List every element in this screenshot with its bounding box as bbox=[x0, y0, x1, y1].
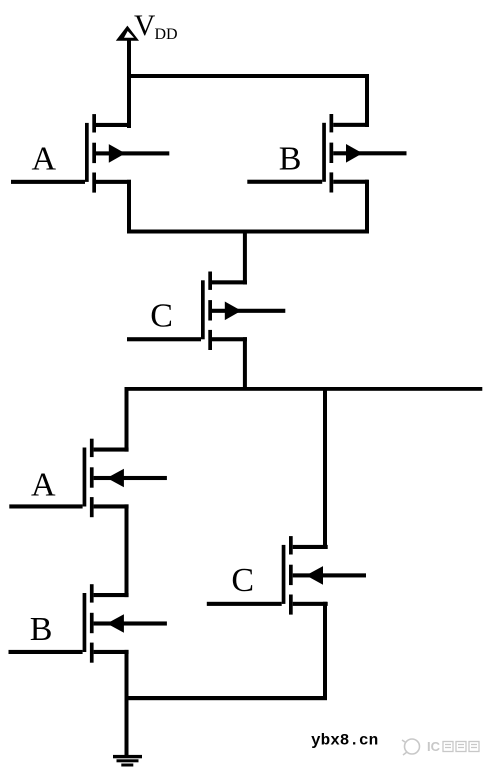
svg-text:B: B bbox=[279, 141, 302, 178]
svg-text:B: B bbox=[30, 611, 53, 648]
svg-text:DD: DD bbox=[155, 26, 178, 43]
svg-text:ybx8.cn: ybx8.cn bbox=[311, 732, 378, 750]
svg-text:C: C bbox=[231, 562, 254, 599]
svg-text:A: A bbox=[32, 141, 57, 178]
svg-text:V: V bbox=[134, 10, 155, 42]
svg-text:C: C bbox=[150, 298, 173, 335]
svg-text:IC: IC bbox=[427, 739, 441, 754]
svg-text:A: A bbox=[31, 466, 56, 503]
